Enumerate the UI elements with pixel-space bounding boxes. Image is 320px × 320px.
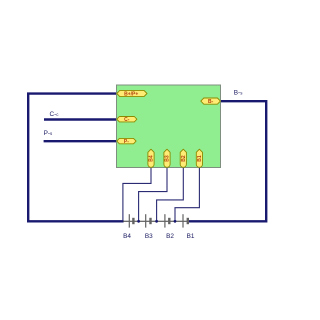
svg-text:C-c: C-c [50,111,60,118]
svg-text:B4: B4 [123,233,131,240]
svg-text:B1: B1 [187,233,195,240]
svg-text:P-s: P-s [44,130,53,137]
svg-text:P-: P- [124,139,129,145]
svg-text:B-s: B-s [234,89,243,96]
svg-text:B2: B2 [166,233,174,240]
svg-text:B-: B- [208,99,214,105]
svg-text:B4: B4 [149,155,155,162]
svg-text:B+/P+: B+/P+ [124,91,138,97]
svg-text:C-: C- [124,117,130,123]
svg-text:B2: B2 [181,155,187,162]
svg-text:B3: B3 [165,155,171,162]
svg-text:B1: B1 [197,155,203,162]
svg-text:B3: B3 [145,233,153,240]
